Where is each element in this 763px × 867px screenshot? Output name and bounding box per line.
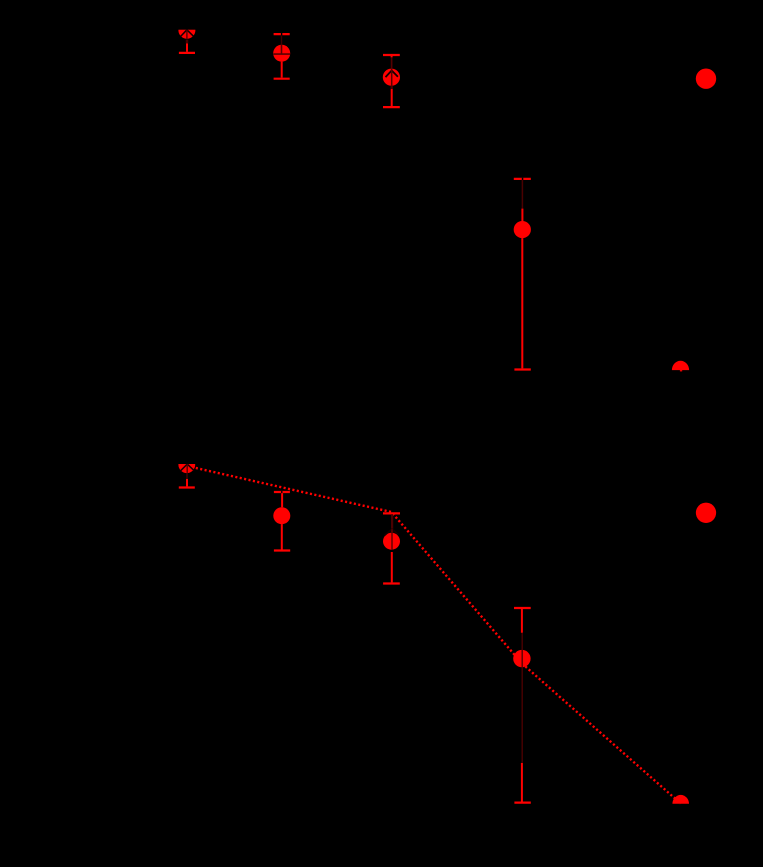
node B2: large solid circle lower right bbox=[696, 503, 716, 523]
node P2: data point 2 upper panel bbox=[273, 33, 290, 79]
wire: red dotted model line (lower panel polyline) bbox=[187, 466, 681, 804]
node B1: large solid circle upper right bbox=[696, 69, 716, 89]
node P6: data point 2 lower panel bbox=[273, 491, 290, 551]
node P9: half circle clipped at lower panel bottom edge bbox=[672, 795, 689, 804]
node P3: data point 3 upper panel bbox=[383, 55, 400, 107]
node P1: data point 1 upper panel (half circle with carvings) bbox=[175, 18, 199, 53]
node P4: data point 4 upper panel (long error bar) bbox=[514, 178, 531, 370]
node H1: half circle clipped at upper panel bottom edge bbox=[672, 361, 689, 372]
node P5: data point 1 lower panel (half circle with carvings) bbox=[175, 452, 199, 488]
node P7: data point 3 lower panel bbox=[383, 513, 400, 583]
node P8: data point 4 lower panel (long error bar) bbox=[513, 608, 531, 803]
